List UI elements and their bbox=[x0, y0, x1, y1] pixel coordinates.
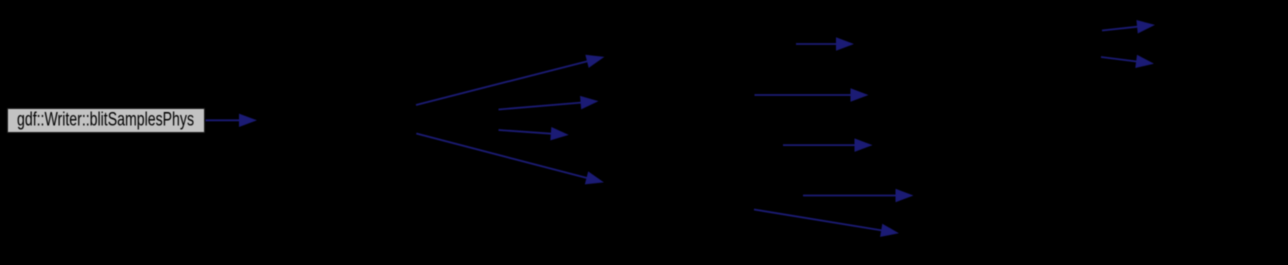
wire edgeK to hidden node N13 bbox=[1101, 57, 1137, 62]
wire edgeB to hidden node N4 bbox=[499, 103, 582, 110]
wire edgeF to hidden node N8 bbox=[755, 94, 852, 96]
svg-text:gdf::Writer::blitSamplesPhys: gdf::Writer::blitSamplesPhys bbox=[17, 109, 194, 130]
wire edgeA from node N2 upward to hidden node N3 bbox=[416, 61, 588, 105]
wire edgeJ to hidden node N12 bbox=[1102, 27, 1138, 31]
wire edgeD from node N2 downward to hidden node N6 bbox=[416, 134, 587, 179]
wire edgeI to hidden node N11 bbox=[754, 210, 882, 231]
node U1 gdf::Writer::blitSamplesPhys bbox=[7, 108, 205, 133]
wire edgeG to hidden node N9 bbox=[783, 144, 855, 146]
wire edge0 from node U1 to hidden node N2 bbox=[206, 119, 240, 121]
wire edgeH to hidden node N10 bbox=[803, 195, 896, 197]
wire edgeC to hidden node N5 bbox=[499, 130, 552, 134]
wire edgeE to hidden node N7 bbox=[796, 43, 837, 45]
